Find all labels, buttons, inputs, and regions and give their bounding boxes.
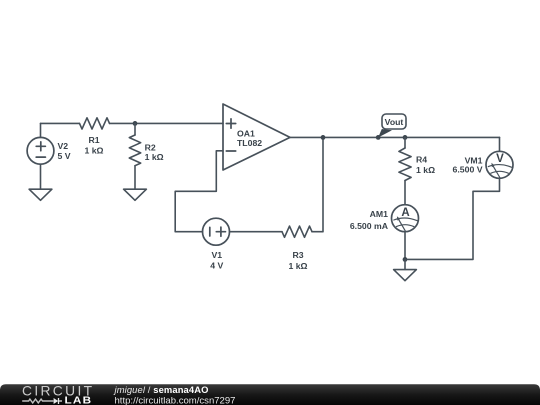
wire: R4 to AM1 xyxy=(404,181,406,205)
wire: VM1 return to bottom node xyxy=(407,178,499,259)
svg-text:V: V xyxy=(496,153,504,165)
wire: R2 top lead xyxy=(134,123,136,135)
wire: AM1 bottom lead xyxy=(404,232,406,260)
svg-text:1 kΩ: 1 kΩ xyxy=(84,146,103,156)
wire: V2 top lead xyxy=(40,123,42,137)
node B: feedback junction xyxy=(321,135,326,140)
wire: V2 bottom lead xyxy=(40,164,42,189)
wire: op-amp - input feedback stub xyxy=(175,151,223,232)
svg-text:6.500 mA: 6.500 mA xyxy=(350,221,389,231)
svg-text:1 kΩ: 1 kΩ xyxy=(288,261,307,271)
svg-text:Vout: Vout xyxy=(385,117,404,127)
svg-text:http://circuitlab.com/csn7297: http://circuitlab.com/csn7297 xyxy=(115,395,236,405)
wire: R1 to op-amp + input xyxy=(110,122,224,124)
voltmeter VM1 xyxy=(486,151,513,178)
svg-text:LAB: LAB xyxy=(65,395,93,405)
wire: R3 up to output node xyxy=(312,137,323,231)
ground below V2 xyxy=(29,189,52,200)
wire: op-amp output xyxy=(290,136,500,138)
node C: R4 junction xyxy=(403,135,408,140)
label Vout flag xyxy=(378,114,406,137)
op-amp OA1 xyxy=(223,104,290,170)
node D: bottom junction xyxy=(403,257,408,262)
voltage source V2 xyxy=(27,137,54,164)
svg-text:R4: R4 xyxy=(416,154,427,164)
wire: R2 bottom lead xyxy=(134,166,136,189)
svg-text:V1: V1 xyxy=(211,250,222,260)
svg-text:TL082: TL082 xyxy=(237,138,262,148)
wire: VM1 top lead xyxy=(499,137,501,151)
svg-text:V2: V2 xyxy=(58,141,69,151)
resistor R4 xyxy=(399,148,411,181)
svg-text:OA1: OA1 xyxy=(237,128,255,138)
wire: R4 top lead xyxy=(404,137,406,148)
svg-text:1 kΩ: 1 kΩ xyxy=(416,165,435,175)
logo diode glyph xyxy=(54,398,59,404)
node Vout anchor dot xyxy=(376,135,381,140)
voltage source V1 xyxy=(203,218,230,245)
wire: V2 to R1 xyxy=(41,122,80,124)
footer bar xyxy=(0,384,540,405)
svg-text:jmiguel / semana4AO: jmiguel / semana4AO xyxy=(113,384,209,395)
svg-text:4 V: 4 V xyxy=(210,261,223,271)
wire: bottom node to ground xyxy=(404,259,406,269)
logo resistor zigzag glyph xyxy=(22,399,53,403)
ammeter AM1 xyxy=(392,205,419,232)
svg-text:R2: R2 xyxy=(145,142,156,152)
ground below AM1 xyxy=(394,270,417,281)
svg-text:1 kΩ: 1 kΩ xyxy=(145,152,164,162)
svg-text:R1: R1 xyxy=(88,135,99,145)
wire: V1 to R3 xyxy=(230,231,282,233)
svg-text:A: A xyxy=(401,207,409,219)
svg-text:R3: R3 xyxy=(292,250,303,260)
node A: R1/R2 junction xyxy=(133,121,138,126)
svg-text:6.500 V: 6.500 V xyxy=(453,165,483,175)
resistor R1 xyxy=(80,118,110,129)
svg-text:AM1: AM1 xyxy=(370,209,389,219)
resistor R3 xyxy=(282,226,312,237)
svg-text:5 V: 5 V xyxy=(58,151,71,161)
resistor R2 xyxy=(129,135,140,166)
ground below R2 xyxy=(124,189,147,200)
